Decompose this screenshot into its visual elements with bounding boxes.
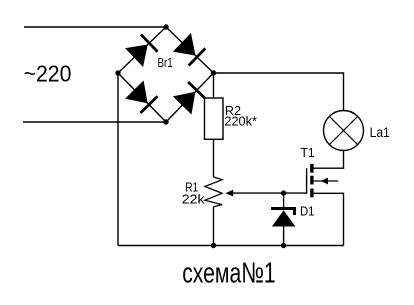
node left of bridge xyxy=(115,70,120,75)
transistor T1 body line xyxy=(314,180,339,182)
lamp La1 cross xyxy=(329,116,357,144)
wire D1 bottom to rail xyxy=(283,227,285,246)
potentiometer R1 wiper arrow xyxy=(226,190,234,197)
node D1 bottom rail junction xyxy=(281,243,286,248)
wire wiper to gate xyxy=(228,192,307,194)
lamp La1 circle xyxy=(324,111,364,151)
wire lamp bottom to drain corner xyxy=(314,151,344,169)
node right of bridge xyxy=(211,70,216,75)
wire bridge edge top-right xyxy=(166,27,214,73)
wire source to rail xyxy=(314,193,344,245)
svg-text:22k: 22k xyxy=(182,193,206,207)
wire bridge edge top-left xyxy=(118,27,166,73)
transistor T1 gate line xyxy=(306,168,308,194)
potentiometer R1 zigzag xyxy=(205,177,222,207)
svg-text:Br1: Br1 xyxy=(158,56,173,70)
transistor T1 channel bar drain xyxy=(310,164,313,173)
wire right node down to R2 xyxy=(213,73,215,98)
bridge diode bottom-left xyxy=(125,81,158,114)
svg-text:D1: D1 xyxy=(300,205,315,219)
wire bridge edge bottom-right xyxy=(166,73,214,122)
svg-text:220k*: 220k* xyxy=(224,115,257,129)
svg-text:схема№1: схема№1 xyxy=(182,257,276,289)
bridge diode top-right xyxy=(173,33,206,66)
transistor T1 channel bar source xyxy=(310,189,313,198)
node top of bridge xyxy=(163,24,168,29)
wire bottom rail xyxy=(118,245,344,247)
diode D1 cathode bar with zener tick xyxy=(271,209,295,216)
wire left vertical from bridge left node down xyxy=(117,73,119,246)
diode bridge Br1 xyxy=(125,33,206,114)
svg-text:La1: La1 xyxy=(370,125,390,140)
diode D1 triangle xyxy=(272,210,296,226)
wire right node to lamp xyxy=(214,73,344,111)
bridge diode bottom-right xyxy=(173,81,206,114)
transistor T1 channel bar body xyxy=(310,176,313,185)
node wiper / D1 junction xyxy=(281,190,286,195)
bridge diode top-left xyxy=(125,34,158,67)
wire bottom input xyxy=(23,121,166,123)
transistor T1 body arrow xyxy=(321,178,329,185)
wire R2 bottom to R1 top xyxy=(213,139,215,177)
wire top input xyxy=(24,26,166,28)
resistor R2 body xyxy=(205,98,224,139)
wire bridge edge bottom-left xyxy=(118,73,166,122)
node bottom of bridge xyxy=(163,119,168,124)
svg-text:~220: ~220 xyxy=(24,61,72,87)
wire R1 bottom to rail xyxy=(213,207,215,246)
wire D1 top xyxy=(283,193,285,207)
node R1 bottom rail junction xyxy=(211,243,216,248)
svg-text:T1: T1 xyxy=(301,146,315,160)
